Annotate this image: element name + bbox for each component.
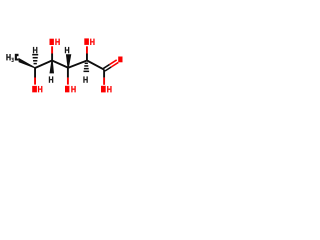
atom label CH3: H	[6, 54, 10, 60]
wedge bond C5-CH3 (wide at methyl)	[19, 58, 36, 69]
bond C1-OH black half	[103, 70, 105, 78]
chain bond C5-C4	[35, 61, 52, 69]
atom label H on C3 (above)	[65, 47, 70, 53]
double bond C1=O upper line red half	[110, 60, 117, 65]
solid wedge C4-H (wide at bottom)	[50, 61, 55, 73]
solid wedge C3-H (wide at top)	[66, 54, 71, 67]
atom label H below C4	[49, 76, 54, 82]
bond C3-OH red half	[67, 78, 69, 85]
chain bond C2-C1	[87, 61, 104, 70]
atom label OH above C4: H	[55, 39, 60, 45]
atom label OH above C2: O block	[84, 38, 89, 45]
atom label OH below C3: O block	[65, 86, 69, 93]
bond C2-OH black half	[86, 54, 88, 61]
hash wedge C2-H (wide at bottom)	[84, 63, 90, 73]
atom label OH above C2: H	[90, 39, 95, 45]
bond C5-OH black half	[34, 68, 36, 78]
atom label OH above C4: O block	[50, 39, 54, 45]
hash wedge C5-H (wide at top)	[32, 54, 38, 64]
atom label =O block	[118, 57, 122, 63]
atom label H below C2	[83, 76, 88, 82]
atom label CH3: subscript 3	[12, 58, 14, 62]
chain bond C3-C2	[68, 61, 87, 68]
double bond C1=O upper line black half	[103, 64, 109, 68]
atom label carboxyl OH: O block	[101, 86, 106, 93]
atom label CH3: C glyph (solid with right notch)	[15, 54, 19, 61]
bond C4-OH red half	[51, 46, 53, 53]
atom label H on C5 (above)	[33, 47, 37, 53]
bond C5-OH red half	[34, 78, 36, 85]
bond C4-OH black half	[51, 54, 53, 61]
bond C2-OH red half	[86, 46, 88, 53]
double bond C1=O lower line black half	[105, 67, 111, 71]
chain bond C4-C3	[52, 61, 68, 68]
bond C3-OH black half	[67, 68, 69, 78]
atom label OH below C3: H	[71, 86, 76, 92]
atom label carboxyl OH: H	[107, 86, 112, 92]
bond C1-OH red half	[103, 78, 105, 85]
atom label OH below C5: O block	[32, 86, 37, 92]
atom label OH below C5: H	[38, 86, 42, 92]
background	[0, 0, 130, 130]
double bond C1=O lower line red half	[111, 62, 118, 67]
